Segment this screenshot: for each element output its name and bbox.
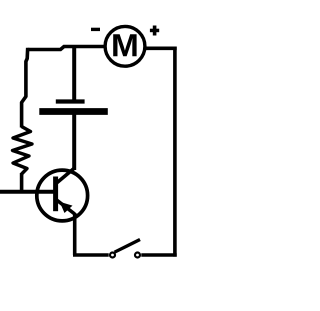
label minus bbox=[91, 28, 100, 31]
wire motor positive lead bbox=[146, 46, 177, 50]
wire battery bottom to transistor bbox=[72, 114, 76, 170]
wire base (left edge to transistor base) bbox=[0, 190, 54, 194]
switch S1 bbox=[110, 240, 140, 258]
wire top-left (motor negative lead to left branch corner) bbox=[28, 47, 105, 50]
transistor Q1 (PNP) bbox=[37, 168, 88, 221]
label plus bbox=[150, 26, 159, 36]
wire battery top vertical bbox=[72, 47, 76, 102]
wire bottom-left rail to switch bbox=[73, 253, 109, 257]
wire left vertical branch down to resistor bbox=[22, 48, 28, 128]
battery BT1 bbox=[39, 102, 108, 112]
wire transistor emitter down to bottom rail bbox=[73, 213, 77, 255]
resistor R1 bbox=[13, 127, 33, 175]
motor U1 bbox=[105, 26, 145, 66]
wire right vertical bbox=[173, 47, 177, 257]
wire resistor bottom to base wire bbox=[20, 173, 24, 193]
wire switch to bottom-right corner bbox=[141, 253, 176, 257]
